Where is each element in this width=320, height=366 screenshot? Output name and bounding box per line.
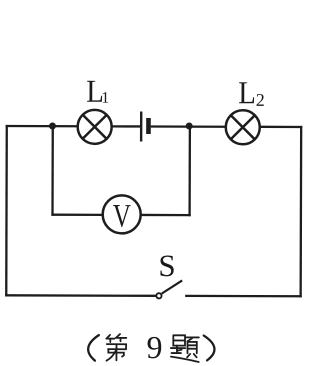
battery cell: long plate xyxy=(140,111,142,141)
battery cell: short thick plate xyxy=(146,118,151,134)
node B junction dot xyxy=(186,122,193,129)
svg-text:1: 1 xyxy=(101,90,109,107)
caption character 第 xyxy=(106,334,126,361)
switch S pivot circle xyxy=(156,293,161,298)
wire top-left segment xyxy=(6,125,78,128)
wire battery to L2 xyxy=(151,125,226,128)
wire voltmeter branch right horizontal xyxy=(141,214,191,216)
caption character 题 xyxy=(171,335,199,362)
wire voltmeter branch right vertical xyxy=(188,126,191,216)
wire left vertical xyxy=(5,125,8,296)
voltmeter U1 xyxy=(103,195,141,233)
caption close paren xyxy=(204,336,215,361)
caption open paren xyxy=(88,335,99,361)
wire L2 to top-right corner xyxy=(259,126,302,128)
svg-text:9: 9 xyxy=(146,329,162,365)
svg-text:S: S xyxy=(158,248,175,283)
wire switch to bottom-left xyxy=(5,294,155,297)
svg-text:L: L xyxy=(238,75,256,111)
svg-text:V: V xyxy=(113,199,131,235)
node A junction dot xyxy=(49,122,56,129)
wire voltmeter branch left horizontal xyxy=(51,214,102,216)
lamp L1 xyxy=(78,110,112,144)
wire voltmeter branch left vertical xyxy=(51,126,54,216)
wire right vertical xyxy=(299,126,302,297)
svg-text:2: 2 xyxy=(256,90,265,110)
wire bottom-right to switch xyxy=(185,295,302,298)
lamp L2 xyxy=(226,110,260,144)
switch S lever xyxy=(162,280,183,293)
wire L1 to battery xyxy=(111,125,140,127)
